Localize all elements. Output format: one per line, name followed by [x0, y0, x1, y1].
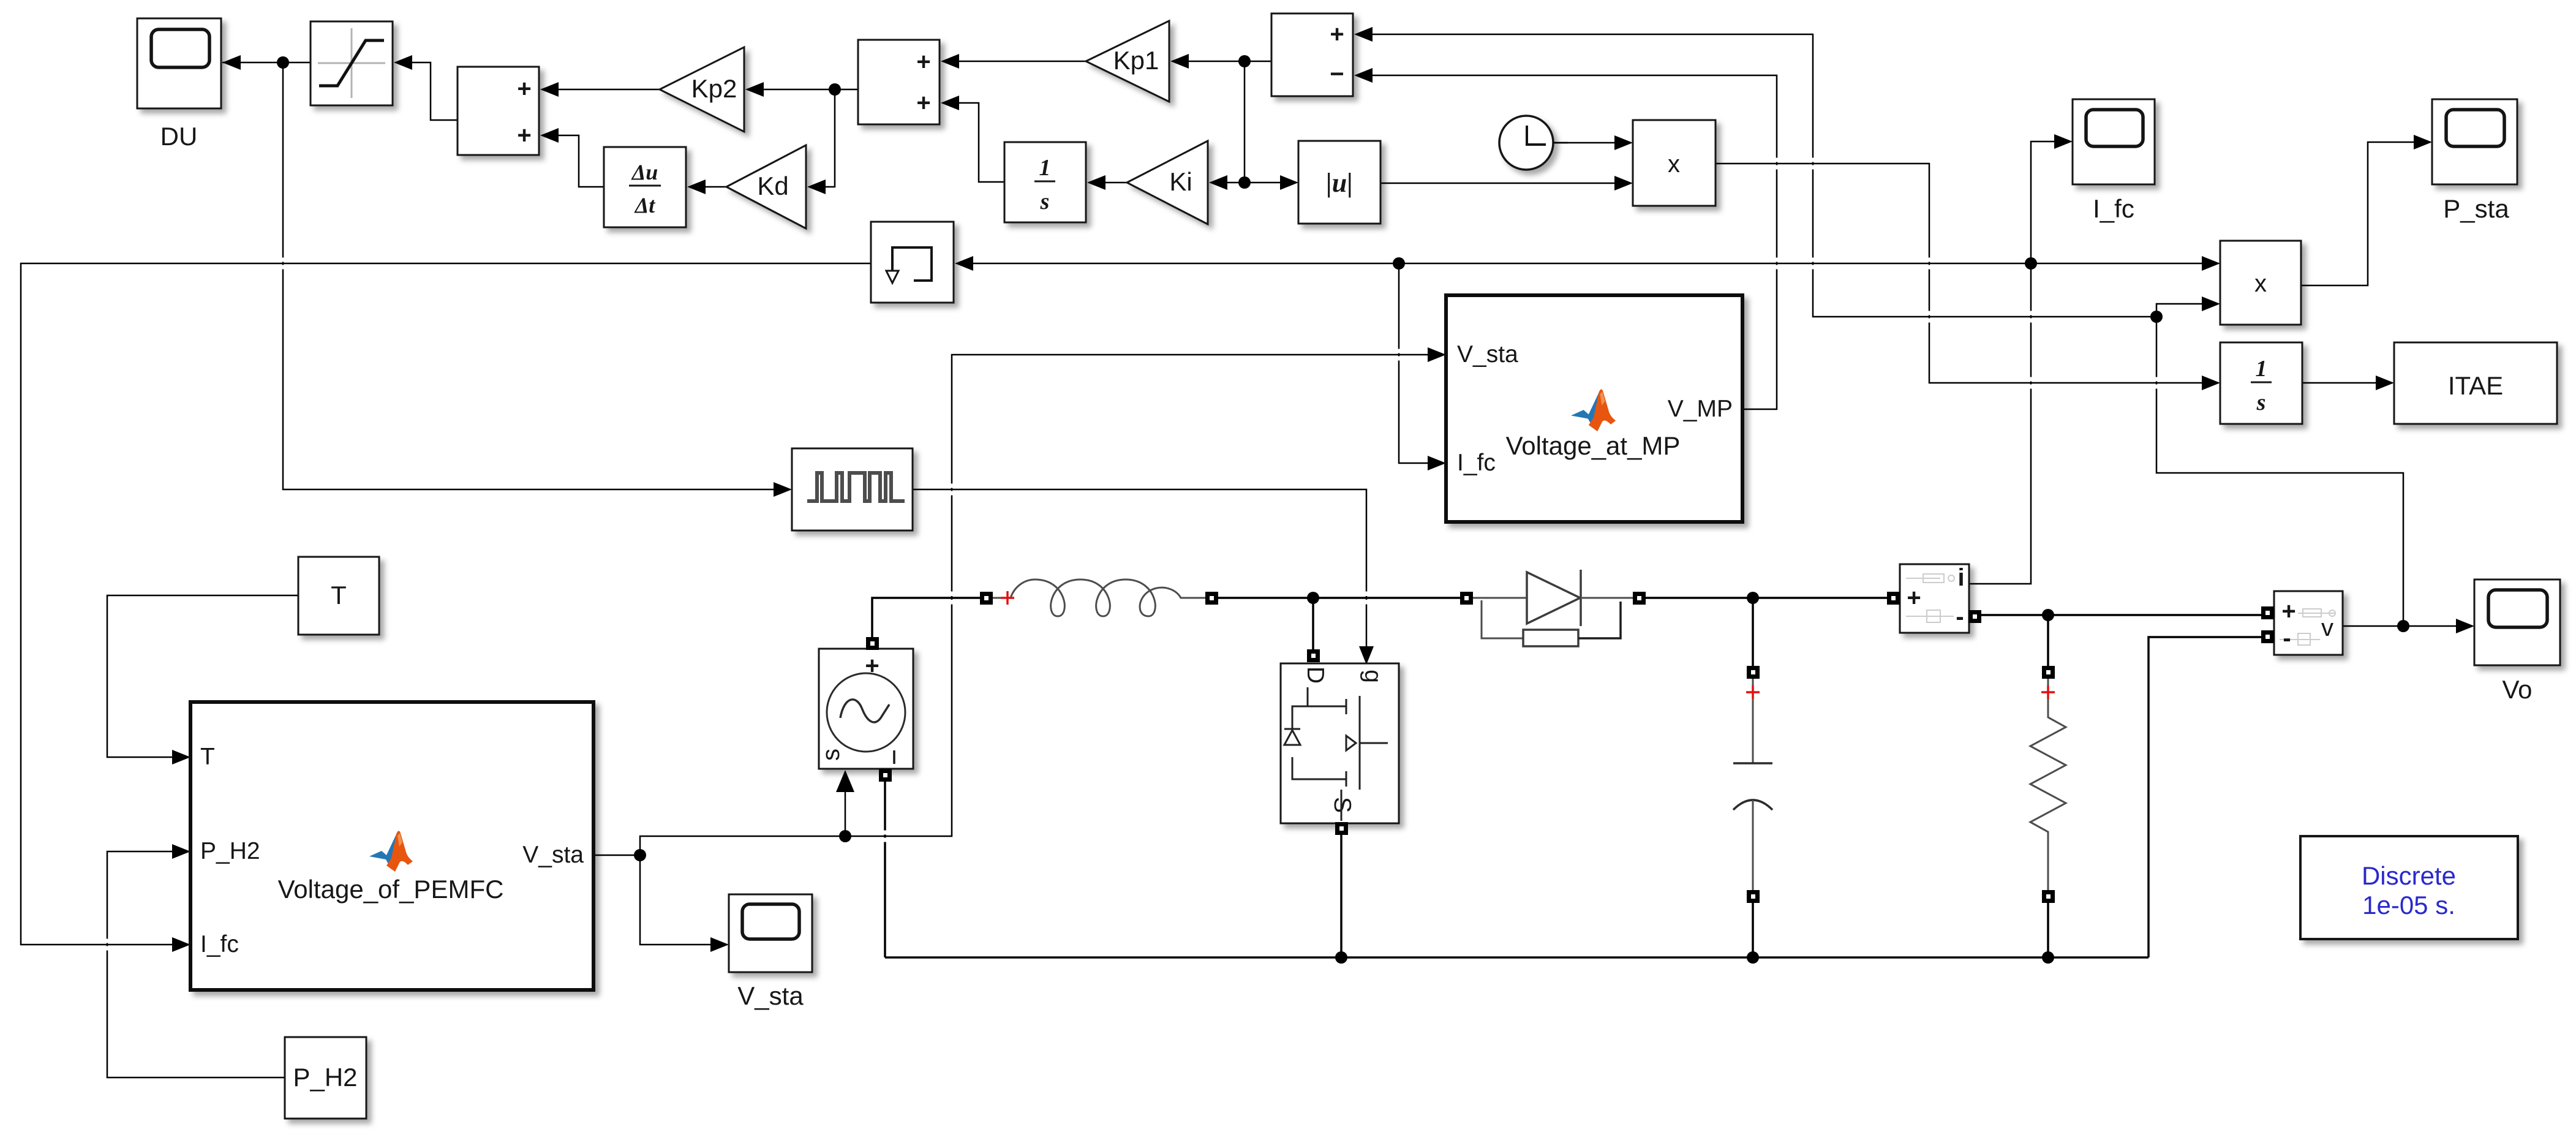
- wire: inductor output port to MOSFET drain node to diode input port: [1218, 597, 1461, 599]
- MATLAB logo of Voltage_at_MP: [1571, 390, 1616, 432]
- wire: diode output port to capacitor node to current sensor plus port: [1645, 597, 1889, 599]
- svg-text:V_sta: V_sta: [737, 981, 804, 1010]
- subsystem Voltage_at_MP: [1446, 295, 1742, 522]
- svg-text:s: s: [818, 749, 845, 761]
- wire: junction J7 step up to Product2 input 2: [2156, 296, 2220, 317]
- sum block Sum3: [1271, 13, 1353, 96]
- wire: resistor node down to resistor port: [2047, 615, 2049, 667]
- wire: Ki output to Integrator 1/s input: [1087, 175, 1127, 190]
- node J1 (saturation output branch): [277, 56, 289, 69]
- block ITAE: [2394, 342, 2557, 424]
- svg-text:T: T: [331, 581, 347, 610]
- wire: voltage source minus terminal down to rail: [884, 780, 886, 957]
- node J8 (V_sta output branch): [634, 849, 646, 861]
- wire: Vo feedback up from junction J6 to junction J7: [2156, 317, 2403, 626]
- wire: Sum2 output to junction J2 to Kp2 input: [745, 82, 858, 97]
- wire: Sum1 output to Saturation input: [394, 55, 458, 120]
- svg-text:s: s: [2256, 390, 2266, 415]
- wire: junction J2 down to Kd input: [807, 89, 835, 194]
- wire: junction J5 down to Voltage_at_MP I_fc input: [1399, 263, 1446, 470]
- red plus of capacitor: [1746, 685, 1760, 699]
- integrator 1/s second: [2220, 342, 2302, 424]
- wire: junction J4 to Abs block input: [1245, 175, 1298, 190]
- svg-text:+: +: [1330, 21, 1344, 48]
- node J5 (I_fc row branch): [1393, 257, 1405, 270]
- gain Ki: [1127, 141, 1208, 224]
- svg-text:-: -: [2283, 625, 2291, 652]
- constant block P_H2: [285, 1037, 366, 1119]
- node rail capacitor: [1747, 951, 1759, 964]
- product block Product2 (x): [2220, 241, 2301, 325]
- scope I_fc: [2073, 99, 2155, 223]
- sum block Sum2: [858, 40, 940, 124]
- node J9 (V_sta to source control branch): [839, 830, 851, 842]
- voltage measurement block v: [2261, 591, 2343, 655]
- gain Kp2: [660, 47, 744, 132]
- node J2 (Sum2 output branch): [829, 83, 841, 96]
- memory block: [871, 222, 954, 303]
- wire: I_fc row right to Product2 input 1: [2031, 256, 2220, 271]
- wire: Kp1 output to Sum2 input 1: [941, 54, 1086, 69]
- node resistor top: [2042, 609, 2054, 621]
- wire: Abs output to Product1 input 2: [1380, 176, 1633, 191]
- wire: capacitor bottom port down to rail: [1752, 902, 1754, 957]
- svg-text:Ki: Ki: [1169, 167, 1192, 196]
- wire: Product2 output up to P_sta scope: [2301, 135, 2432, 285]
- wire crossing gaps (horizontal wires pass over verticals): [104, 158, 2159, 951]
- svg-text:Voltage_of_PEMFC: Voltage_of_PEMFC: [278, 875, 504, 904]
- svg-text:D: D: [1302, 666, 1328, 684]
- wire: Product1 output down to Integrator2 input: [1715, 164, 2220, 390]
- svg-text:Δu: Δu: [631, 160, 658, 184]
- wire: capacitor node down to capacitor port: [1752, 598, 1754, 667]
- wire: Du/Dt output to Sum1 input 2: [540, 128, 604, 187]
- wire: PWM generator output to MOSFET gate: [913, 489, 1374, 665]
- svg-text:I_fc: I_fc: [2093, 194, 2134, 223]
- svg-text:|u|: |u|: [1326, 168, 1353, 198]
- svg-text:P_H2: P_H2: [200, 838, 260, 864]
- product block Product1 (x): [1633, 120, 1715, 206]
- wire: Sum3 output to junction J3 to Kp1 input: [1170, 54, 1271, 69]
- svg-text:+: +: [517, 75, 531, 102]
- abs block |u|: [1298, 141, 1380, 224]
- sum block Sum1: [458, 67, 539, 155]
- current measurement block i: [1887, 564, 1981, 633]
- derivative block Du/Dt: [604, 147, 686, 227]
- svg-text:DU: DU: [160, 122, 198, 151]
- svg-text:Discrete: Discrete: [2362, 861, 2456, 890]
- wire: junction J7 left and up to Sum3 plus input: [1354, 27, 2156, 317]
- wire: drain node down to MOSFET D port: [1312, 598, 1314, 651]
- node capacitor top: [1747, 592, 1759, 604]
- red plus of inductor: [1001, 591, 1014, 605]
- wire: junction J8 down to V_sta scope input: [640, 855, 729, 952]
- inductor: [980, 579, 1218, 616]
- svg-text:-: -: [1956, 603, 1964, 630]
- svg-text:Δt: Δt: [634, 193, 656, 217]
- svg-text:V_sta: V_sta: [522, 842, 584, 868]
- wire: junction J4 to Ki input: [1209, 175, 1245, 190]
- svg-text:ITAE: ITAE: [2448, 371, 2503, 400]
- wire: voltage source plus terminal up to inductor input port: [872, 598, 981, 640]
- svg-text:g: g: [1360, 670, 1386, 683]
- diode with RC snubber: [1460, 570, 1646, 646]
- svg-text:+: +: [916, 89, 930, 116]
- MATLAB logo of Voltage_of_PEMFC: [369, 831, 413, 872]
- svg-text:+: +: [517, 122, 531, 149]
- wire: Memory output to far left and down to PEMFC I_fc input: [21, 263, 871, 952]
- wire: Clock output to Product1 input 1: [1553, 135, 1633, 150]
- svg-text:Voltage_at_MP: Voltage_at_MP: [1506, 431, 1681, 460]
- wire: Saturation output to junction J1 to DU scope input: [222, 55, 311, 70]
- saturation block: [311, 21, 393, 105]
- integrator 1/s: [1004, 142, 1086, 222]
- wire: voltmeter minus port left and down to ground rail: [2149, 637, 2261, 957]
- wire: MOSFET S port down to rail: [1340, 834, 1343, 957]
- wire: current sensor minus port to resistor node to voltmeter plus port: [1980, 614, 2261, 616]
- scope P_sta: [2432, 99, 2517, 223]
- svg-text:x: x: [2254, 270, 2267, 297]
- svg-text:P_sta: P_sta: [2443, 194, 2509, 223]
- controlled voltage source: [818, 637, 913, 782]
- svg-text:V_sta: V_sta: [1457, 341, 1518, 368]
- svg-text:I_fc: I_fc: [1457, 450, 1496, 476]
- wire: junction J1 down and right to PWM generator input: [283, 62, 792, 497]
- svg-text:1: 1: [2256, 356, 2267, 382]
- red plus of resistor: [2041, 685, 2055, 699]
- svg-text:Kp1: Kp1: [1113, 46, 1159, 75]
- scope Vo: [2474, 579, 2560, 704]
- load resistor branch: [2030, 666, 2066, 903]
- wire: resistor bottom port down to rail: [2047, 902, 2049, 957]
- wire: Integrator2 output to ITAE block: [2302, 376, 2394, 390]
- MOSFET block: [1281, 649, 1399, 835]
- svg-text:x: x: [1668, 151, 1680, 178]
- svg-text:T: T: [200, 744, 215, 770]
- scope V_sta: [729, 894, 812, 1010]
- svg-text:v: v: [2321, 614, 2333, 641]
- svg-text:Kp2: Kp2: [691, 74, 737, 103]
- svg-text:P_H2: P_H2: [293, 1063, 357, 1092]
- wire: Voltage_at_MP V_MP output up to Sum3 minus input: [1354, 68, 1777, 409]
- node J7 (Vo feedback branch): [2150, 311, 2163, 323]
- gain Kd: [726, 145, 806, 228]
- svg-text:+: +: [916, 48, 930, 75]
- MATLAB function block Voltage_of_PEMFC: [190, 702, 593, 990]
- node rail resistor: [2042, 951, 2054, 964]
- wire: Kd output to Du/Dt input: [687, 179, 726, 194]
- svg-text:i: i: [1957, 564, 1964, 591]
- svg-text:Kd: Kd: [757, 172, 788, 200]
- wire: I_fc row from junction J5a left to Memory input: [955, 256, 2031, 271]
- node J4 (Ki / Abs branch): [1238, 176, 1251, 189]
- node rail MOSFET source: [1335, 951, 1347, 964]
- svg-text:s: s: [1040, 189, 1050, 214]
- wire: current measurement signal up to I_fc scope: [1967, 134, 2073, 584]
- wire: Kp2 output to Sum1 input 1: [540, 82, 660, 97]
- node J6 (Vo output branch): [2397, 620, 2409, 632]
- svg-text:+: +: [1907, 584, 1921, 611]
- wire: PEMFC V_sta output junction J8: [593, 855, 640, 856]
- pulse generator PWM: [792, 448, 913, 530]
- clock block: [1499, 116, 1568, 170]
- wire: junction J8 up and right to Voltage_at_MP V_sta input: [640, 347, 1446, 855]
- wire: T constant to PEMFC T input: [107, 595, 298, 764]
- wire: P_H2 constant to PEMFC P_H2 input: [107, 844, 285, 1078]
- wire: junction J3 down to junction J4: [1244, 61, 1246, 183]
- gain Kp1: [1086, 21, 1169, 102]
- svg-text:1: 1: [1039, 155, 1051, 181]
- constant block T: [298, 557, 379, 635]
- wire: Integrator 1/s output to Sum2 input 2: [941, 96, 1004, 182]
- svg-text:I_fc: I_fc: [200, 931, 239, 957]
- node J5a (current signal branch to row): [2025, 257, 2037, 270]
- scope DU: [137, 18, 221, 151]
- svg-text:−: −: [1330, 61, 1344, 88]
- wire: bottom ground rail: [885, 956, 2149, 959]
- powergui block Discrete 1e-05 s.: [2300, 836, 2518, 939]
- svg-text:1e-05 s.: 1e-05 s.: [2362, 891, 2455, 919]
- wire: voltage measurement output to junction J6 to Vo scope: [2343, 619, 2474, 633]
- svg-text:V_MP: V_MP: [1668, 396, 1733, 422]
- node drain (inductor / MOSFET / diode): [1307, 592, 1319, 604]
- svg-text:+: +: [2281, 598, 2295, 625]
- wire: junction J9 up to controlled voltage source s input: [836, 770, 854, 836]
- capacitor branch: [1733, 666, 1772, 903]
- svg-text:Vo: Vo: [2502, 675, 2532, 704]
- node J3 (Sum3 output branch): [1238, 55, 1251, 67]
